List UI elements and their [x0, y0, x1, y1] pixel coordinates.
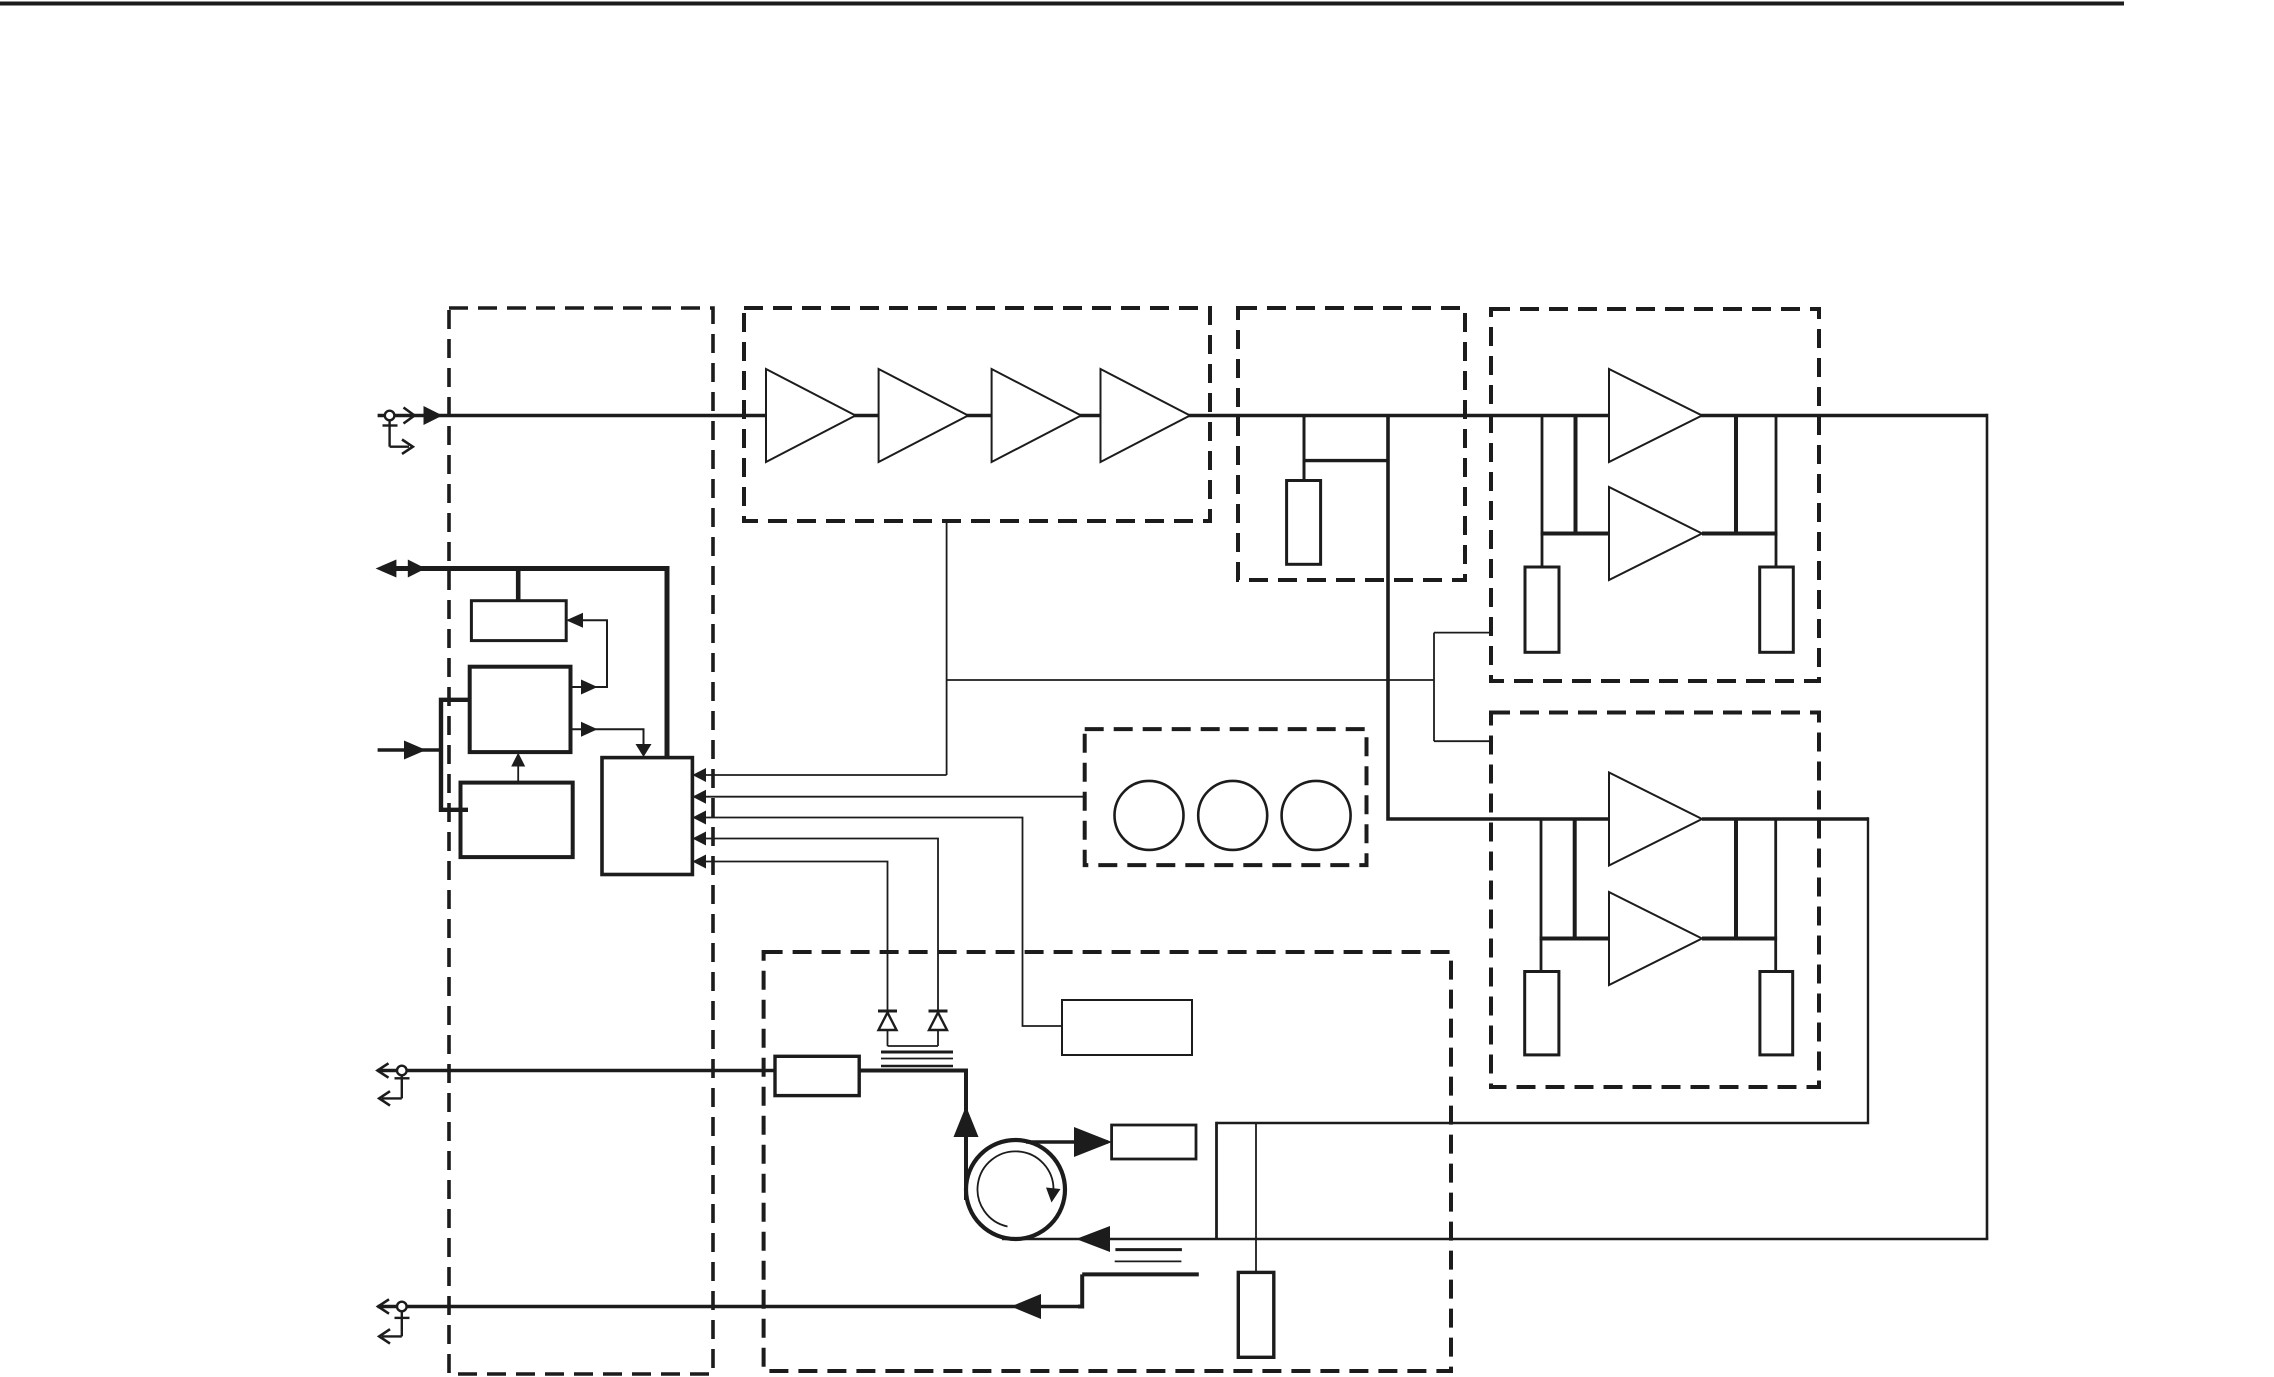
- wire: bias branch to PA forks: [947, 679, 1434, 681]
- PA2 amp upper: [1609, 773, 1702, 866]
- amplifier A3: [992, 369, 1082, 462]
- wire: TX output right vertical: [1986, 414, 1989, 1239]
- PA1 switch vertical right outer: [1775, 416, 1778, 568]
- PA1 lower path right: [1702, 532, 1777, 536]
- coupler bar: [1303, 459, 1390, 462]
- dashed box: control section (left tall): [449, 308, 713, 1374]
- wire: RX/antenna line to circulator: [1002, 1238, 1988, 1240]
- dashed box: oscillator bank: [1085, 729, 1367, 865]
- bus double arrow right: [408, 560, 426, 578]
- RX coupler line 1: [1115, 1248, 1182, 1251]
- wire: bias tap from amp chain: [946, 521, 948, 775]
- arrowhead line 3: [692, 811, 706, 825]
- PA1 amp lower: [1609, 487, 1702, 580]
- PA2 switch vertical left inner: [1573, 819, 1577, 939]
- amplifier A4: [1101, 369, 1191, 462]
- coupler termination resistor: [1287, 481, 1321, 565]
- RX line arrowhead into circulator: [1076, 1226, 1110, 1252]
- register block R1: [471, 601, 566, 641]
- RX coupler line 2: [1115, 1260, 1182, 1262]
- wire: termination stem: [1255, 1123, 1257, 1272]
- dashed box: PA block 1: [1491, 309, 1819, 681]
- arrowhead line 2: [692, 790, 706, 804]
- wire: TX out line: [378, 1069, 775, 1072]
- PA1 switch vertical right inner: [1734, 416, 1738, 534]
- port bracket: [441, 700, 468, 810]
- wire: B3 to B2 arrow: [517, 764, 519, 783]
- wire: coupled feed to PA2: [1388, 416, 1609, 820]
- PA1 switch vertical left outer: [1541, 416, 1544, 568]
- bus double arrow left: [376, 560, 397, 578]
- arrowhead B2 out lower: [581, 722, 598, 737]
- power detector block: [1112, 1125, 1196, 1159]
- oscillator circle 2: [1198, 781, 1267, 850]
- arrowhead into logic top: [636, 744, 652, 757]
- block B2 (interface): [470, 667, 571, 752]
- bidirectional control bus: [390, 566, 670, 571]
- detector block: [1062, 1000, 1192, 1055]
- control line 3: [694, 818, 1062, 1027]
- dashed box: PA block 2: [1491, 713, 1819, 1088]
- PA1 amp upper: [1609, 369, 1702, 462]
- detector arrowhead: [1074, 1127, 1112, 1157]
- wire: fork vertical: [1433, 633, 1435, 742]
- wire: enable input: [378, 748, 441, 752]
- dashed box: driver amplifier chain: [744, 308, 1210, 521]
- wire: B2 to control logic: [571, 729, 644, 752]
- dashed box: duplexer/front-end block: [764, 952, 1451, 1371]
- block B3 (bias): [461, 783, 573, 858]
- isolator block: [775, 1056, 859, 1095]
- PA1 lower path left: [1541, 532, 1609, 536]
- arrowhead line 4: [692, 832, 706, 846]
- bus branch to register: [516, 569, 521, 602]
- RF input terminal: [383, 411, 413, 454]
- PA2 switch vertical right inner: [1734, 819, 1738, 939]
- PA1 switch vertical left inner: [1574, 416, 1578, 534]
- ground stack line 1: [881, 1051, 953, 1054]
- PA1 load resistor left: [1525, 567, 1559, 652]
- diode D1: [878, 1011, 897, 1046]
- circulator arc arrowhead: [1046, 1188, 1061, 1203]
- ground stack line 3: [881, 1065, 953, 1067]
- arrowhead line 1: [692, 768, 706, 782]
- oscillator circle 3: [1282, 781, 1351, 850]
- RX out terminal: [378, 1299, 410, 1343]
- wire: main TX line: [378, 414, 1987, 417]
- arrowhead B2 out upper: [581, 680, 598, 695]
- circulator rotation arc: [978, 1151, 1054, 1226]
- control logic block: [602, 758, 692, 875]
- circulator: [966, 1140, 1065, 1239]
- wire: B2 to R1 feedback: [568, 620, 607, 687]
- dashed box: coupler/detector block: [1238, 308, 1465, 580]
- amplifier A1: [766, 369, 856, 462]
- arrowhead into R1: [566, 613, 583, 628]
- control line 4: [694, 839, 938, 1012]
- PA2 switch vertical left outer: [1540, 819, 1543, 972]
- arrowhead B3 to B2: [511, 753, 525, 767]
- wire: PA2 output: [1702, 817, 1868, 821]
- wire: isolator to circulator: [859, 1071, 966, 1201]
- PA1 load resistor right: [1760, 567, 1794, 652]
- input open chevron on line: [404, 408, 415, 424]
- diode D2: [929, 1011, 948, 1046]
- wire: fork stub to PA2: [1434, 740, 1491, 742]
- RX coupled line: [1082, 1272, 1199, 1276]
- wire: diode common node: [888, 1045, 939, 1047]
- PA2 lower path right: [1702, 937, 1777, 941]
- enable input arrowhead: [404, 741, 426, 760]
- wire: coupled line step down: [1078, 1274, 1082, 1306]
- amplifier A2: [879, 369, 969, 462]
- coupler tap vertical: [1303, 416, 1306, 482]
- wire: PA2 output down leg: [1217, 817, 1869, 1123]
- PA2 lower path left: [1540, 937, 1609, 941]
- PA2 load resistor left: [1525, 972, 1559, 1055]
- bus vertical to logic: [665, 566, 670, 758]
- wire: fork stub to PA1: [1434, 632, 1491, 634]
- wire: down leg to RX line: [1215, 1122, 1218, 1239]
- input solid arrowhead: [424, 406, 443, 425]
- ground stack line 2: [881, 1058, 953, 1060]
- wire: RX out line: [378, 1305, 1082, 1308]
- termination resistor bottom: [1238, 1272, 1274, 1357]
- TX up arrowhead: [954, 1106, 979, 1137]
- RX out arrowhead: [1011, 1294, 1041, 1319]
- control line 2: [694, 796, 1085, 798]
- PA2 load resistor right: [1760, 972, 1793, 1055]
- PA2 switch vertical right outer: [1774, 819, 1777, 972]
- top border rule: [0, 2, 2124, 6]
- control line 5: [694, 862, 888, 1012]
- arrowhead line 5: [692, 855, 706, 869]
- TX out terminal: [378, 1063, 410, 1105]
- wire: circulator to power detector: [1026, 1140, 1108, 1144]
- control line 1: [694, 774, 947, 776]
- PA2 amp lower: [1609, 892, 1702, 985]
- oscillator circle 1: [1115, 781, 1184, 850]
